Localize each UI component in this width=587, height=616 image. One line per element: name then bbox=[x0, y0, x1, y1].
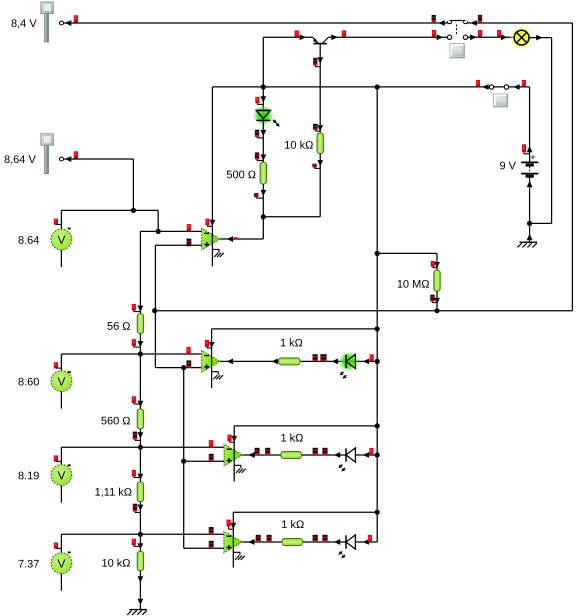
node minus rail 1 junction bbox=[156, 229, 161, 234]
wire voltmeter 8.19 top lead bbox=[60, 447, 62, 464]
wire emitter to switch bbox=[328, 36, 447, 38]
current arrow U4 output bbox=[248, 539, 254, 545]
node junction rail/supply bus bbox=[375, 84, 380, 89]
wire plus chain vertical x=183.7 upper bbox=[183, 368, 185, 462]
LED D1 emission arrows bbox=[273, 120, 274, 121]
svg-text:V: V bbox=[57, 557, 65, 571]
wire U4 output row bbox=[242, 541, 377, 543]
current arrows ladder bottom bbox=[138, 576, 144, 582]
node slider VR1 output connector bbox=[60, 21, 64, 25]
svg-text:9 V: 9 V bbox=[499, 160, 516, 172]
wire ladder 1.11k to 10k bbox=[139, 502, 141, 552]
current arrow above 500 resistor bbox=[260, 155, 266, 161]
current arrow after diode D2 bbox=[363, 358, 369, 364]
terminal left of push-make switch SW1b bbox=[432, 30, 436, 37]
wire junction to base resistor column bbox=[263, 216, 320, 218]
current arrow below 560 resistor bbox=[138, 432, 144, 438]
terminal above 1.11k resistor bbox=[132, 470, 136, 477]
terminal above LED bbox=[255, 97, 259, 104]
wire voltmeter 8.60 top lead bbox=[60, 354, 62, 371]
push-to-make switch SW2 (open) bbox=[489, 85, 493, 89]
svg-text:10 MΩ: 10 MΩ bbox=[397, 279, 430, 291]
terminal U4 inverting input bbox=[209, 527, 214, 534]
current arrow into 10M bbox=[434, 262, 440, 268]
terminal U3 inverting input bbox=[209, 440, 213, 447]
wire minus rail 1 bbox=[140, 230, 201, 232]
push-to-break switch SW1a (closed bar) bbox=[447, 21, 451, 23]
terminal left of switch SW2 bbox=[476, 80, 480, 87]
wire U2 V+ loop bbox=[212, 328, 378, 330]
resistor R10 1 kOhm bbox=[282, 538, 303, 545]
node loop U2 on bus bbox=[375, 326, 380, 331]
ground ladder earth bbox=[129, 609, 147, 611]
resistor R1 500 Ohm bbox=[260, 162, 266, 184]
wire V+ rail y=87 bbox=[212, 86, 529, 88]
wire right edge vertical x=572 bbox=[571, 23, 573, 311]
wire voltmeter 8.64 bottom stub bbox=[60, 250, 62, 267]
op-amp U3 bbox=[224, 444, 242, 466]
svg-text:8,64 V: 8,64 V bbox=[4, 154, 36, 166]
terminals after R10 bbox=[313, 535, 318, 542]
terminal before bus row2 bbox=[370, 354, 374, 361]
wire lamp to right corner bbox=[529, 37, 552, 39]
current arrow before diode D2 bbox=[332, 358, 338, 364]
node ladder tap row2 bbox=[138, 351, 143, 356]
node battery/lamp return junction bbox=[527, 221, 532, 226]
wire U3 output row bbox=[242, 454, 377, 456]
resistor R9 1 kOhm bbox=[281, 451, 302, 458]
node loop U3 on bus bbox=[375, 423, 380, 428]
resistor R6 10 MOhm bbox=[434, 270, 440, 291]
wire minus rail 4 bbox=[61, 533, 224, 535]
current arrow before diode D4 bbox=[334, 539, 340, 545]
op-amp U1 bbox=[202, 228, 220, 250]
node loop U4 on bus bbox=[375, 510, 380, 515]
current arrow after diode D4 bbox=[363, 539, 369, 545]
wire ladder 560 to 1.11k bbox=[139, 429, 141, 482]
wire ladder 56 to 560 bbox=[139, 333, 141, 409]
wire LED column upper bbox=[262, 37, 264, 110]
voltmeter 8.64 body bbox=[51, 229, 72, 250]
wire feedback rail y=310.7 bbox=[155, 310, 573, 312]
wire rail from VR2 junction y=210.4 bbox=[61, 209, 158, 211]
svg-text:7.37: 7.37 bbox=[18, 559, 39, 571]
terminals after U3 output bbox=[255, 448, 260, 455]
wire base resistor to junction bbox=[319, 154, 321, 217]
svg-text:1 kΩ: 1 kΩ bbox=[280, 337, 303, 349]
wire U1 plus input bbox=[155, 244, 201, 246]
svg-text:8.64: 8.64 bbox=[18, 235, 39, 247]
terminal battery positive bbox=[522, 144, 526, 152]
terminal above 56 resistor bbox=[132, 304, 136, 311]
push button of SW1 bbox=[450, 44, 464, 58]
wire plus chain vertical x=155.4 bbox=[154, 245, 156, 367]
current arrow below 500 resistor bbox=[260, 190, 266, 196]
wire U4 V+ loop bbox=[233, 511, 377, 513]
current arrow above base resistor bbox=[317, 125, 323, 131]
current arrow emitter bbox=[331, 34, 337, 40]
terminal below LED bbox=[255, 130, 259, 137]
node U2 output on bus bbox=[375, 359, 380, 364]
node ladder tap row4 bbox=[138, 532, 143, 537]
ground op-amp U1 V- earth bbox=[212, 249, 219, 252]
wire LED column to op-amp output bbox=[262, 217, 264, 239]
terminal left of push-break switch SW1a bbox=[432, 15, 436, 22]
dashed gang link of push switch SW1 bbox=[456, 25, 458, 36]
wire voltmeter 7.37 top lead bbox=[60, 534, 62, 553]
svg-text:10 kΩ: 10 kΩ bbox=[101, 558, 130, 570]
terminal U2 non-inverting input bbox=[186, 360, 191, 367]
terminal above base resistor bbox=[313, 124, 318, 130]
wire battery bottom lead bbox=[529, 178, 531, 242]
ground op-amp U3 V- earth bbox=[234, 465, 241, 468]
wire plus chain vertical x=183.7 lower bbox=[183, 461, 185, 548]
current arrow below base resistor bbox=[317, 160, 323, 166]
wire U4 plus input bbox=[184, 547, 224, 549]
terminal above 10k resistor bbox=[132, 539, 136, 546]
wire bus to 10M resistor bbox=[375, 251, 380, 256]
current arrow base bbox=[317, 57, 323, 63]
current arrow above 560 resistor bbox=[138, 401, 144, 407]
terminal U1 non-inverting input bbox=[187, 239, 192, 247]
svg-text:560 Ω: 560 Ω bbox=[101, 415, 131, 427]
node 10M/feedback rail junction bbox=[434, 308, 439, 313]
voltmeter 8.19 body bbox=[51, 465, 72, 486]
svg-text:1,11 kΩ: 1,11 kΩ bbox=[95, 487, 132, 499]
svg-text:V: V bbox=[57, 233, 65, 247]
wire top rail y=23 left section bbox=[64, 22, 448, 24]
node ladder tap row3 bbox=[138, 445, 143, 450]
current arrow below LED bbox=[260, 130, 266, 136]
diode D2 LED glowing bbox=[339, 351, 359, 371]
resistor R7 10 kOhm bbox=[137, 551, 143, 570]
wire 500 resistor to node bbox=[262, 184, 264, 217]
svg-text:V: V bbox=[57, 374, 65, 388]
lamp L1 bbox=[509, 25, 534, 50]
terminal mark on U1 output bbox=[234, 237, 237, 239]
terminal above 500 resistor bbox=[255, 152, 259, 159]
diode D3 emission arrows bbox=[341, 465, 342, 466]
ground battery earth bbox=[520, 241, 538, 243]
terminal below 500 resistor bbox=[254, 193, 259, 197]
current arrow U1 output bbox=[227, 236, 233, 242]
terminal U3 non-inverting input bbox=[209, 454, 214, 461]
terminal U3 V+ bbox=[227, 435, 231, 442]
transistor Q1 bbox=[313, 43, 327, 45]
current arrow before diode D3 bbox=[334, 452, 340, 458]
terminal above 10M resistor bbox=[431, 261, 435, 267]
terminal below 10M resistor bbox=[430, 295, 434, 302]
wire supply bus x=377 bbox=[376, 87, 378, 542]
diode D3 LED bbox=[345, 448, 347, 461]
wire battery top lead bbox=[529, 87, 531, 162]
terminals after U4 output bbox=[256, 535, 261, 542]
voltage slider control VR2 8,64 V bbox=[45, 144, 49, 174]
current arrow collector bbox=[300, 34, 306, 40]
node U3 output on bus bbox=[375, 452, 380, 457]
terminal right of SW2 bbox=[522, 80, 526, 87]
svg-text:8,4 V: 8,4 V bbox=[11, 18, 37, 30]
terminal before bus row4 bbox=[368, 535, 372, 542]
svg-text:56 Ω: 56 Ω bbox=[107, 321, 131, 333]
terminal on base wire bbox=[313, 58, 317, 66]
svg-text:8.19: 8.19 bbox=[18, 470, 39, 482]
terminal below 56 resistor bbox=[132, 339, 136, 346]
terminal left of lamp bbox=[497, 30, 501, 37]
current arrow before lamp bbox=[501, 34, 507, 40]
wire battery node to lamp column bbox=[530, 222, 552, 224]
node rail joins + chain bbox=[152, 308, 157, 313]
wire 10M to rail bbox=[436, 291, 438, 311]
svg-text:1 kΩ: 1 kΩ bbox=[281, 519, 304, 531]
wire U2 output row bbox=[220, 360, 377, 362]
current arrow battery bottom bbox=[527, 181, 533, 187]
terminal on voltmeter 8.60 bbox=[54, 362, 58, 368]
node LED column / base resistor junction bbox=[261, 214, 266, 219]
terminal on emitter wire bbox=[342, 30, 346, 37]
node VR2 drop junction bbox=[131, 208, 136, 213]
voltmeter 8.60 body bbox=[51, 371, 72, 392]
terminal U4 V+ bbox=[227, 520, 231, 527]
wire ladder column top section bbox=[139, 231, 141, 313]
current arrow right of SW1a bbox=[471, 20, 477, 26]
op-amp U4 bbox=[224, 531, 242, 553]
terminal U2 V+ bbox=[205, 340, 209, 347]
current arrow to ground bbox=[527, 234, 533, 240]
wire switch to lamp bbox=[468, 36, 515, 38]
resistor R3 56 Ohm bbox=[137, 314, 143, 334]
terminal right of SW1b bbox=[478, 30, 482, 37]
current arrow right of SW1b bbox=[470, 34, 476, 40]
current arrow above LED bbox=[260, 96, 266, 102]
node slider VR2 output connector bbox=[60, 157, 64, 161]
wire U2 plus input bbox=[155, 367, 201, 369]
wire vertical x=551 lamp to battery node bbox=[551, 38, 553, 224]
current arrow U1 V+ bbox=[210, 220, 216, 226]
node plus chain branch row3 bbox=[181, 459, 186, 464]
wire from VR2 to junction bbox=[64, 158, 134, 160]
current arrow above 10k resistor bbox=[138, 543, 144, 549]
svg-text:1 kΩ: 1 kΩ bbox=[280, 433, 303, 445]
diode D4 emission arrows bbox=[341, 551, 342, 552]
wire minus rail 2 bbox=[61, 353, 201, 355]
current arrow after lamp bbox=[536, 35, 542, 41]
current arrow U2 V+ bbox=[209, 342, 215, 348]
terminal on voltmeter 8.64 bbox=[54, 219, 58, 225]
current arrow after diode D3 bbox=[363, 452, 369, 458]
current arrow on top rail bbox=[439, 20, 445, 26]
resistor R8 1 kOhm bbox=[279, 358, 300, 365]
wire minus rail 3 bbox=[61, 446, 224, 448]
current arrow U3 V+ bbox=[231, 436, 237, 442]
ground op-amp U2 V- earth bbox=[212, 372, 219, 375]
terminal U2 inverting input bbox=[186, 347, 190, 354]
wire voltmeter 8.60 bottom stub bbox=[60, 392, 62, 409]
node junction rail/LED column bbox=[261, 84, 266, 89]
wire transistor base lead bbox=[319, 44, 321, 133]
terminal U1 inverting input bbox=[187, 224, 191, 231]
current arrow above 56 resistor bbox=[138, 306, 144, 312]
resistor R4 560 Ohm bbox=[137, 409, 143, 429]
diode D4 LED bbox=[345, 535, 347, 548]
terminal op-amp U1 V+ bbox=[205, 219, 209, 226]
terminal on collector wire bbox=[295, 30, 299, 37]
op-amp U2 bbox=[202, 351, 220, 373]
terminals after R9 bbox=[313, 448, 318, 455]
wire transistor collector segment bbox=[263, 36, 312, 38]
terminal before bus row3 bbox=[369, 448, 373, 455]
terminal below base resistor bbox=[312, 164, 317, 168]
terminal on slider VR1 wire bbox=[74, 15, 78, 22]
current arrow battery top bbox=[527, 146, 533, 152]
current arrow U3 output bbox=[248, 452, 254, 458]
push-to-make switch SW1b (open) bbox=[447, 35, 451, 39]
voltage slider control VR1 8,4 V bbox=[45, 12, 49, 42]
current arrow below 1.11k resistor bbox=[138, 505, 144, 511]
wire voltmeter 7.37 bottom stub bbox=[60, 574, 62, 591]
svg-text:V: V bbox=[57, 468, 65, 482]
node plus chain branch row2 bbox=[181, 365, 186, 370]
current arrow rail bbox=[482, 84, 488, 90]
wire U3 plus input bbox=[184, 460, 224, 462]
wire top rail y=23 right section bbox=[468, 22, 573, 24]
current arrows U2 output bbox=[227, 358, 233, 364]
terminal on slider VR2 wire bbox=[74, 151, 78, 158]
wire voltmeter 8.19 bottom stub bbox=[60, 485, 62, 502]
svg-text:8.60: 8.60 bbox=[18, 376, 39, 388]
LED D1 glowing bbox=[253, 105, 274, 126]
diode D2 emission arrows bbox=[342, 372, 343, 373]
resistor R2 10 kOhm bbox=[317, 133, 323, 154]
current arrow above 1.11k resistor bbox=[138, 474, 144, 480]
wire U1 output bbox=[220, 238, 263, 240]
wire LED to 500 resistor bbox=[262, 120, 264, 162]
terminal on voltmeter 7.37 bbox=[54, 543, 58, 549]
resistor R5 1,11 kOhm bbox=[137, 482, 143, 502]
current arrow below 56 resistor bbox=[138, 341, 144, 347]
svg-text:500 Ω: 500 Ω bbox=[226, 169, 256, 181]
terminal on voltmeter 8.19 bbox=[54, 455, 58, 461]
terminal U4 non-inverting input bbox=[209, 541, 214, 548]
push button of SW2 bbox=[494, 94, 508, 107]
wire ladder bottom to earth bbox=[139, 571, 141, 610]
terminal below 560 resistor bbox=[133, 432, 137, 440]
voltmeter 7.37 body bbox=[51, 553, 72, 574]
terminal below 1.11k resistor bbox=[133, 504, 137, 512]
current arrow below 10M bbox=[434, 298, 440, 304]
terminal above 560 resistor bbox=[132, 396, 136, 403]
wire voltmeter 8.64 top lead bbox=[60, 210, 62, 229]
ground op-amp U4 V- earth bbox=[233, 552, 240, 555]
terminal right of push-break switch SW1a bbox=[478, 15, 482, 22]
terminals after R8 bbox=[313, 354, 318, 361]
wire drop x=158.2 bbox=[157, 210, 159, 231]
wire U3 V+ loop bbox=[234, 425, 377, 427]
svg-text:10 kΩ: 10 kΩ bbox=[284, 140, 313, 152]
current arrow right of SW2 bbox=[513, 84, 519, 90]
current arrow U4 V+ bbox=[230, 523, 236, 529]
